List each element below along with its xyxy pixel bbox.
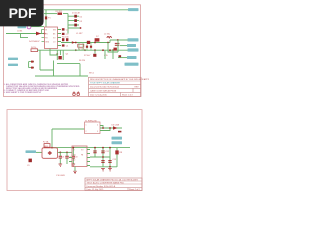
svg-text:Date: 12 July 2015: Date: 12 July 2015: [87, 188, 105, 191]
capacitor C2: [62, 33, 65, 35]
transformer T1: [85, 122, 101, 134]
wire input net: [6, 33, 45, 35]
svg-text:C9: C9: [27, 165, 30, 167]
svg-text:2: 2: [86, 131, 87, 133]
wire main dc rail: [44, 147, 130, 149]
svg-text:L2 33u: L2 33u: [104, 34, 110, 36]
capacitor C16: [86, 46, 88, 48]
wire rail drops: [105, 50, 113, 59]
wire from J1: [31, 26, 44, 28]
wire Q1 drops: [57, 50, 63, 60]
junction node C5: [117, 39, 119, 41]
resistor R2: [78, 44, 84, 47]
svg-text:CAGE CODE SIZE A4 FSCM: CAGE CODE SIZE A4 FSCM: [90, 89, 116, 92]
svg-text:BS: BS: [53, 33, 56, 35]
svg-text:R5 100: R5 100: [62, 37, 69, 39]
node CON1 label: [18, 25, 27, 28]
wire bridge out: [58, 151, 73, 153]
svg-text:D1 4148: D1 4148: [72, 12, 80, 14]
ground G3: [101, 169, 105, 171]
capacitor C9 polarized: [29, 159, 32, 163]
U1 bottom wire: [50, 49, 57, 56]
capacitor C17: [90, 46, 92, 48]
svg-text:3: 3: [97, 131, 98, 133]
junction after D5: [75, 42, 77, 44]
diode D2: [74, 19, 77, 22]
wire ac in: [36, 151, 42, 153]
svg-text:Date: 12 July 2015: Date: 12 July 2015: [90, 94, 108, 97]
svg-text:D3: D3: [80, 21, 83, 23]
junction node rail52: [51, 147, 53, 149]
junction node b2: [66, 152, 68, 154]
svg-text:PDF: PDF: [9, 5, 37, 21]
resistor R1: [58, 13, 63, 15]
title block page 1: [89, 77, 156, 96]
wire rectified net: [100, 127, 122, 129]
node VOUT label: [128, 38, 139, 41]
svg-text:FB: FB: [45, 37, 48, 39]
svg-text:NTC1: NTC1: [89, 72, 94, 74]
capacitor C18: [62, 44, 65, 46]
sheet frame page 2: [7, 110, 142, 191]
diode D5: [72, 41, 75, 44]
node IN2 label: [8, 64, 18, 66]
svg-text:VO: VO: [81, 149, 84, 151]
svg-text:T1 PWR-230: T1 PWR-230: [85, 120, 97, 122]
wire top power rail: [44, 9, 134, 11]
wire C6 drop: [59, 152, 61, 164]
svg-text:D4 1N4007: D4 1N4007: [29, 41, 40, 43]
resistor R8: [115, 150, 118, 154]
svg-text:Document Number SCH-0015-A: Document Number SCH-0015-A: [90, 85, 119, 88]
svg-text:D7: D7: [96, 36, 99, 38]
connector J2 pin 1: [31, 61, 34, 63]
svg-text:1: 1: [86, 124, 87, 126]
node STATUS label: [125, 63, 139, 66]
svg-text:Q1: Q1: [66, 54, 70, 56]
U2 left stubs: [69, 158, 72, 162]
capacitor C6: [59, 156, 62, 158]
wire C7 drop: [66, 152, 68, 164]
svg-text:Document Number SCH-0015-B: Document Number SCH-0015-B: [87, 185, 116, 188]
junction node m5: [109, 166, 111, 168]
junction node r2: [109, 127, 111, 129]
node ACIN label: [26, 150, 37, 153]
sheet frame page 1: [4, 5, 141, 97]
svg-text:FB: FB: [81, 154, 84, 156]
svg-text:4: 4: [97, 124, 98, 126]
node AUX label: [127, 44, 136, 47]
wire from R1: [63, 14, 68, 34]
inductor L2: [107, 37, 112, 38]
fuse F1: [45, 16, 47, 19]
capacitor C14: [108, 161, 111, 163]
svg-text:C1: C1: [66, 29, 69, 31]
wire sense net: [118, 57, 127, 59]
junction rail dot b: [112, 49, 114, 51]
junction node r1: [102, 127, 104, 129]
junction node Q1 base: [56, 53, 58, 55]
resistor R3: [95, 38, 100, 41]
capacitor C7: [65, 156, 68, 158]
node VDD label: [128, 48, 139, 51]
svg-text:D2: D2: [80, 16, 83, 18]
svg-text:L1 4R7: L1 4R7: [76, 33, 83, 35]
junction node m1: [94, 147, 96, 149]
resistor R4: [31, 49, 38, 52]
svg-text:AD: AD: [73, 158, 76, 161]
junction symbol B: [77, 93, 80, 96]
svg-text:MPPT SOLAR CHARGER PSU 5V, 3A,: MPPT SOLAR CHARGER PSU 5V, 3A, LCD REV A…: [87, 178, 139, 181]
inductor L1: [87, 41, 90, 44]
capacitor C1: [62, 28, 65, 30]
node SENSE label: [127, 56, 137, 59]
svg-text:CO: CO: [53, 41, 56, 43]
bridge rectifier BR1: [42, 148, 58, 159]
diode D6: [113, 126, 118, 129]
wire comb drops: [79, 43, 91, 51]
junction node on branch: [80, 27, 82, 29]
svg-text:C13: C13: [113, 159, 118, 161]
svg-text:IN: IN: [45, 29, 47, 31]
svg-text:VO: VO: [53, 37, 56, 39]
svg-text:GND: GND: [45, 41, 50, 43]
svg-text:C4: C4: [66, 46, 68, 48]
ground G1: [59, 164, 63, 166]
junction rail dot a: [84, 49, 86, 51]
title block page 2: [85, 178, 142, 191]
ground G2: [72, 164, 76, 166]
ground G4: [108, 169, 112, 171]
svg-text:F1: F1: [48, 18, 50, 20]
connector J2 bracket: [29, 62, 34, 68]
wire second rail: [44, 13, 57, 15]
junction symbol A: [73, 93, 76, 96]
svg-text:C6: C6: [62, 156, 64, 158]
junction node m4: [102, 156, 104, 158]
svg-text:TITLE: MPPT SOLAR CHARGER: TITLE: MPPT SOLAR CHARGER: [90, 82, 121, 85]
svg-text:D6 5408: D6 5408: [112, 124, 120, 126]
U2 bottom ground wire: [74, 167, 76, 172]
U1 left pin stubs: [42, 30, 45, 42]
capacitor C19: [119, 55, 122, 57]
capacitor C5: [115, 43, 120, 45]
svg-text:VI: VI: [73, 149, 75, 151]
svg-text:Sheet 1 of 2: Sheet 1 of 2: [122, 94, 134, 97]
diode D1: [74, 15, 77, 18]
wire C8 drop: [72, 148, 74, 164]
wire R4 link: [38, 49, 58, 51]
wire main output net: [61, 40, 132, 43]
node VCC label top right: [128, 8, 139, 11]
voltage regulator U2: [72, 146, 87, 167]
svg-text:REV: REV: [135, 86, 140, 88]
junction node rail b: [109, 49, 111, 51]
svg-text:R6 220: R6 220: [79, 60, 85, 62]
op-amp U1: [45, 27, 58, 49]
wire output mesh: [90, 148, 117, 167]
svg-text:3. SEE SHEET 2 FOR POWER SUPPL: 3. SEE SHEET 2 FOR POWER SUPPLY: [4, 92, 42, 94]
capacitor C8: [72, 156, 75, 158]
connector J2 pin 2: [31, 67, 34, 69]
connector J1 pin circle: [27, 25, 31, 29]
fuse F2: [44, 144, 50, 148]
junction node m2: [102, 147, 104, 149]
svg-text:R8: R8: [120, 152, 123, 154]
wire aux net: [120, 45, 127, 47]
junction node rail a: [102, 49, 104, 51]
U2 right stubs: [87, 150, 90, 166]
diode D4: [36, 32, 41, 36]
transistor Q2: [93, 54, 96, 57]
svg-text:TITLE: AC/DC CONVERTER MAINS P: TITLE: AC/DC CONVERTER MAINS PSU: [87, 182, 125, 185]
junction node mid: [94, 42, 96, 44]
wire branch stubs column: [68, 16, 81, 28]
PDF badge: [0, 0, 44, 26]
wire gnd mesh: [35, 50, 88, 76]
capacitor C12: [101, 151, 104, 153]
svg-text:EN: EN: [45, 33, 48, 35]
junction node Q1 col: [60, 56, 62, 58]
junction node c8: [72, 147, 74, 149]
wire vertical feed to U1: [45, 10, 47, 27]
svg-text:R1 2R2: R1 2R2: [56, 11, 62, 13]
svg-text:C12: C12: [106, 151, 111, 153]
svg-text:F2 2A: F2 2A: [43, 141, 49, 144]
transistor Q1: [58, 56, 61, 59]
capacitor C3: [62, 38, 64, 41]
svg-text:R7 4k7: R7 4k7: [84, 55, 91, 57]
diode D8: [114, 48, 117, 51]
junction node b1: [59, 152, 61, 154]
U1 right pin stubs: [58, 30, 62, 46]
svg-text:CON1: CON1: [17, 31, 22, 33]
wire primary feed: [52, 129, 85, 148]
wire stub bracket: [21, 34, 29, 38]
svg-text:R4 1k: R4 1k: [31, 47, 36, 49]
capacitor C13: [101, 161, 104, 163]
capacitor C4: [66, 38, 68, 41]
svg-text:C8: C8: [75, 156, 77, 158]
junction node Q2: [94, 49, 96, 51]
junction node m3: [109, 147, 111, 149]
diode D3: [74, 24, 77, 27]
wire secondary a: [100, 126, 110, 131]
wire sub loop: [108, 40, 118, 52]
svg-text:SW: SW: [53, 29, 56, 31]
node VRAW label: [112, 137, 123, 140]
capacitor C11: [93, 151, 96, 153]
ground G5: [73, 171, 77, 173]
wire Q2 drop: [94, 50, 96, 53]
svg-text:Sheet 2 of 2: Sheet 2 of 2: [129, 188, 141, 191]
junction rail dot c: [75, 49, 77, 51]
node IN1 label: [8, 58, 18, 60]
svg-text:C10 400V: C10 400V: [56, 175, 66, 177]
junction node L2: [107, 42, 109, 44]
wire lower rail: [57, 49, 133, 51]
label D6 ref2: [118, 131, 121, 133]
svg-text:REV DESCRIPTION OF CHANGE APP: REV DESCRIPTION OF CHANGE APP BY CHK DWG…: [90, 78, 149, 81]
node VOUT2 label: [112, 141, 123, 144]
junction node input: [44, 33, 46, 35]
